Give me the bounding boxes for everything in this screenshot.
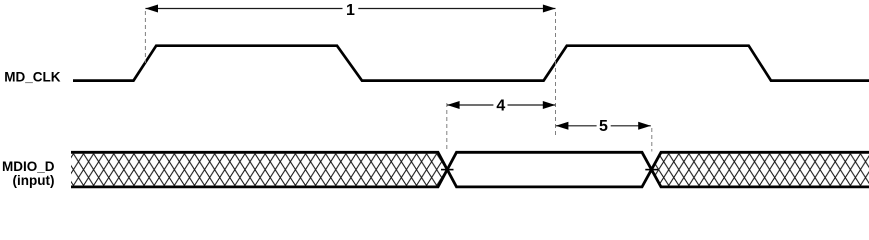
node transition tick 1: [441, 169, 454, 171]
dimension arrow 5: [556, 118, 651, 135]
wire MDIO_D bus lower path: [71, 152, 869, 187]
label MDIO_D (input): [2, 159, 55, 188]
dashed marker line at data transition 2: [651, 128, 653, 152]
node MDIO_D hatch right region: [652, 154, 869, 186]
svg-text:(input): (input): [13, 173, 55, 188]
dashed marker line at clock rising edge 1: [144, 11, 146, 63]
svg-text:4: 4: [496, 98, 505, 115]
svg-text:5: 5: [599, 118, 608, 135]
dimension arrow 1: [145, 2, 555, 19]
wire MD_CLK waveform: [73, 46, 869, 81]
svg-text:MD_CLK: MD_CLK: [4, 70, 60, 85]
dimension arrow 4: [447, 98, 555, 115]
dashed marker line at data transition 1: [446, 103, 448, 152]
wire MDIO_D bus upper path: [71, 152, 869, 187]
svg-text:MDIO_D: MDIO_D: [2, 159, 55, 174]
node transition tick 2: [645, 169, 658, 171]
node MDIO_D hatch left region: [71, 154, 447, 186]
svg-text:1: 1: [346, 2, 355, 19]
dashed marker line at clock rising edge 2: [555, 12, 557, 137]
